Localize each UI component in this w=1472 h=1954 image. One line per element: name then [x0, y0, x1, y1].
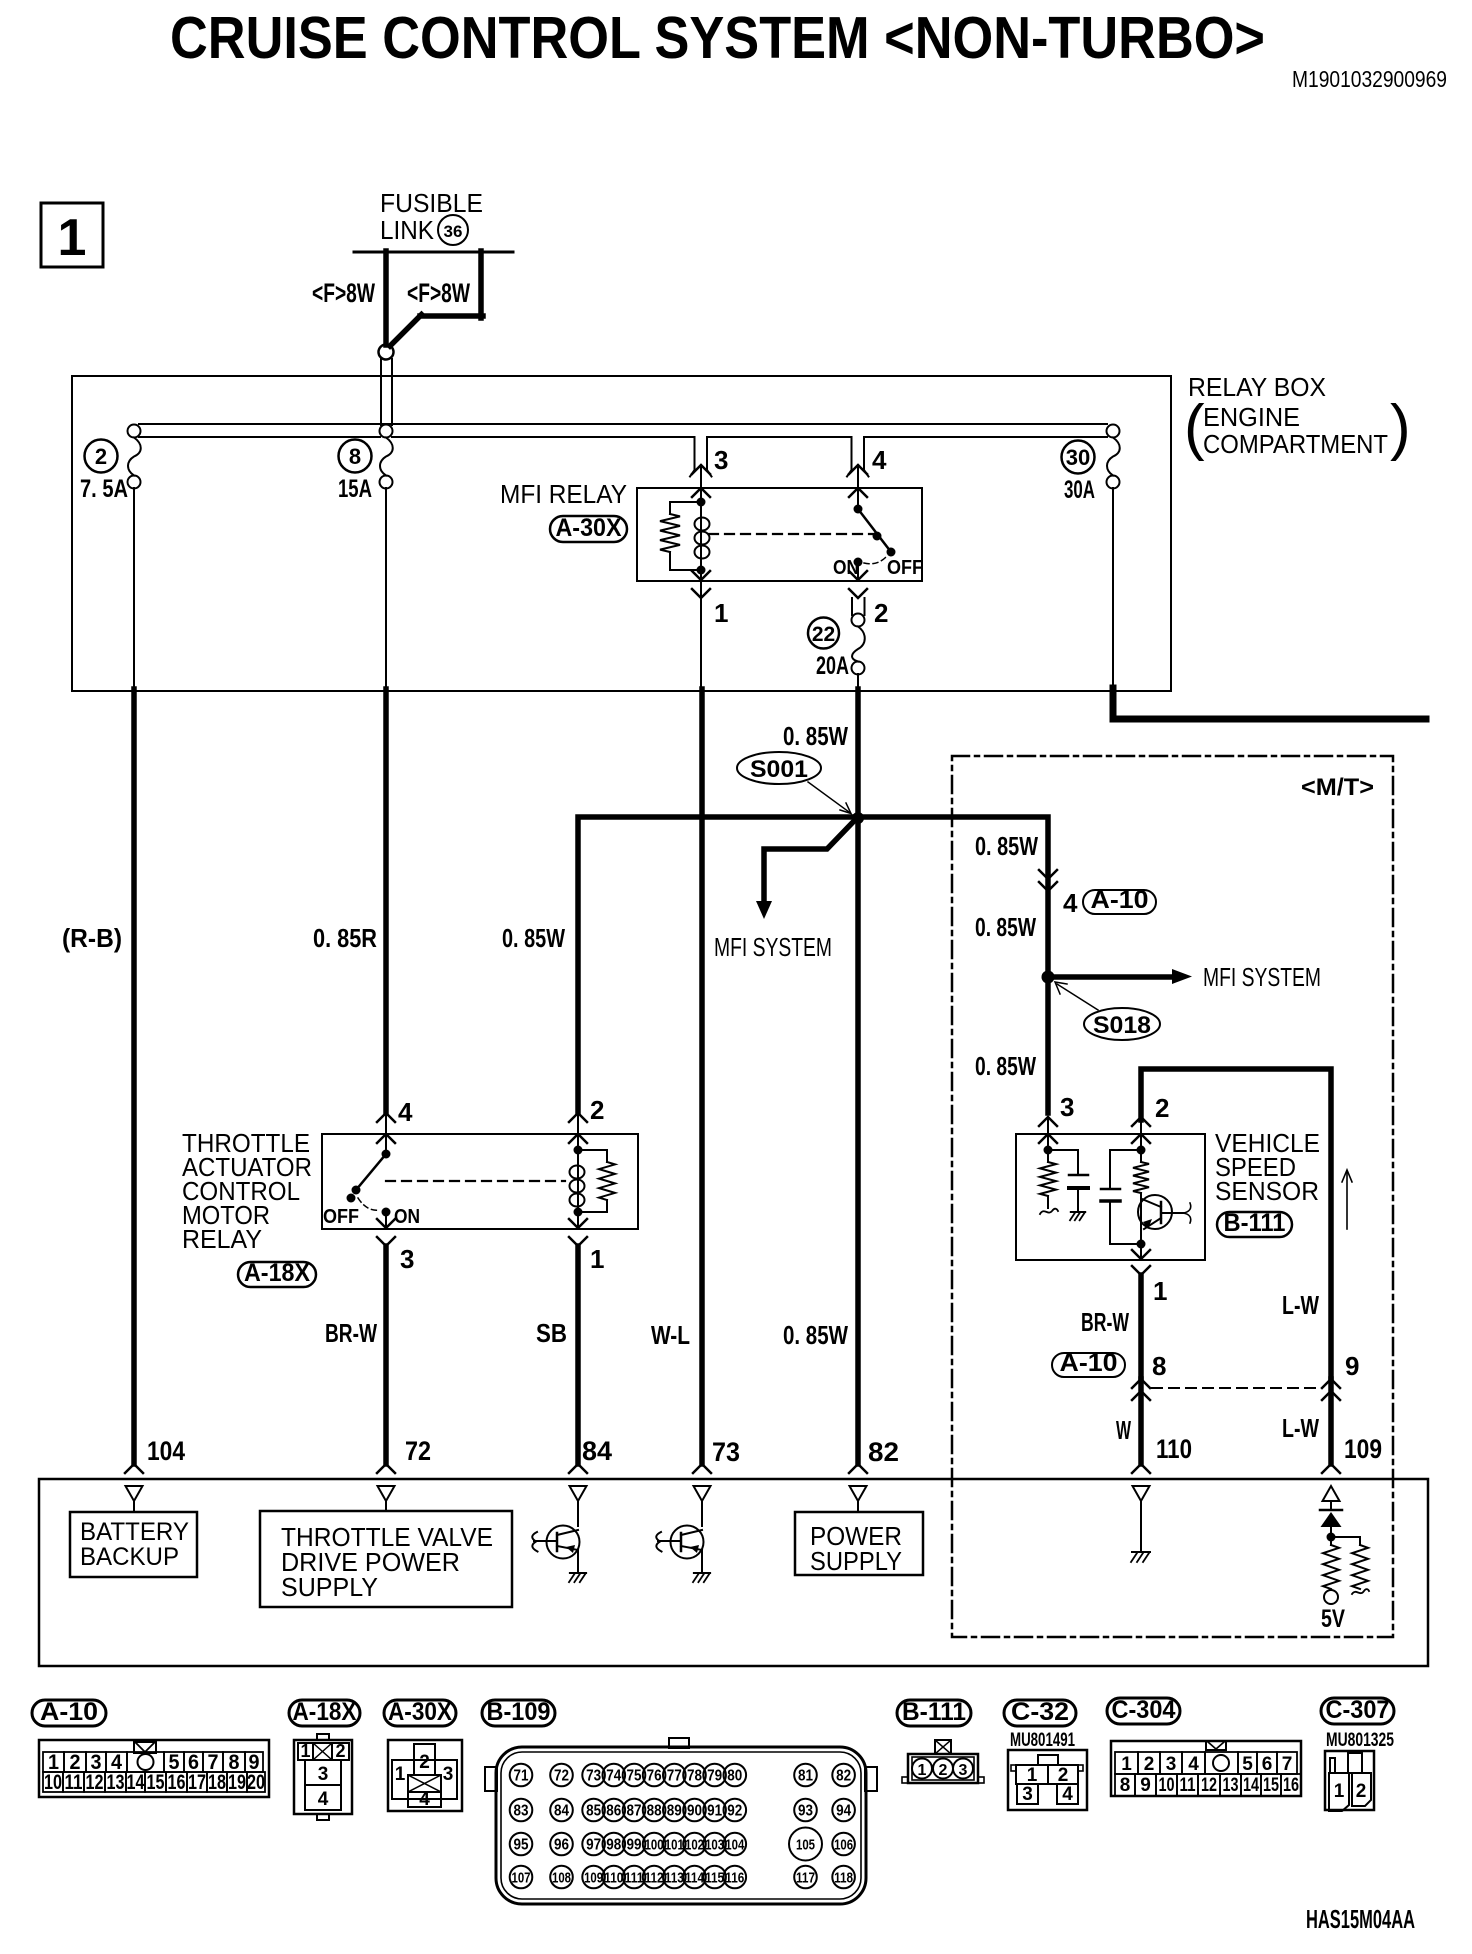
svg-text:15A: 15A	[338, 475, 372, 503]
svg-text:98: 98	[606, 1837, 621, 1854]
fusible link wires	[354, 251, 513, 254]
svg-text:COMPARTMENT: COMPARTMENT	[1203, 429, 1388, 459]
throttle actuator control motor relay A-18X box	[322, 1134, 638, 1229]
svg-text:96: 96	[554, 1837, 569, 1854]
wire fuse30 down	[1112, 488, 1114, 691]
VSS pin 3	[1039, 1117, 1057, 1126]
svg-text:RELAY BOX: RELAY BOX	[1188, 372, 1326, 402]
svg-text:104: 104	[725, 1837, 744, 1854]
A-18X linkage dashed	[386, 1180, 565, 1182]
connector B-111 pinout	[935, 1740, 951, 1754]
svg-text:12: 12	[1201, 1775, 1217, 1796]
svg-text:C-307: C-307	[1326, 1696, 1390, 1724]
svg-text:78: 78	[687, 1768, 702, 1785]
svg-text:4: 4	[419, 1789, 430, 1810]
svg-text:SUPPLY: SUPPLY	[810, 1546, 902, 1576]
svg-text:B-111: B-111	[1224, 1209, 1286, 1237]
page marker 1	[41, 203, 103, 267]
svg-text:L-W: L-W	[1282, 1413, 1319, 1443]
svg-text:2: 2	[419, 1752, 430, 1773]
svg-text:86: 86	[606, 1803, 621, 1820]
svg-text:3: 3	[1060, 1092, 1074, 1122]
double-line wire to bus	[380, 359, 382, 425]
svg-text:17: 17	[188, 1771, 206, 1794]
connector A-10 pin 4 (in M/T)	[1039, 870, 1057, 879]
svg-text:C-304: C-304	[1112, 1696, 1176, 1724]
svg-text:117: 117	[796, 1870, 815, 1887]
svg-text:11: 11	[65, 1771, 83, 1794]
svg-text:5: 5	[1242, 1754, 1253, 1775]
svg-text:MU801325: MU801325	[1326, 1730, 1394, 1751]
svg-text:1: 1	[1121, 1754, 1132, 1775]
connector A-10 pinout	[39, 1740, 269, 1797]
svg-text:A-10: A-10	[1060, 1349, 1118, 1377]
svg-text:85: 85	[586, 1803, 601, 1820]
svg-text:87: 87	[627, 1803, 642, 1820]
VSS pickup tail	[1040, 1209, 1058, 1214]
MFI relay contact linkage (dashed)	[709, 533, 874, 535]
A-18X pin 1	[577, 1212, 579, 1229]
svg-text:BATTERY: BATTERY	[80, 1518, 189, 1546]
svg-text:71: 71	[514, 1768, 529, 1785]
svg-text:<M/T>: <M/T>	[1301, 774, 1374, 801]
ECU ground at 110	[1140, 1501, 1142, 1551]
svg-text:16: 16	[1283, 1775, 1299, 1796]
svg-text:B-109: B-109	[487, 1698, 551, 1726]
svg-text:1: 1	[918, 1762, 927, 1779]
wire L-W VSS pin2 over to ECU 109	[1141, 1069, 1331, 1379]
A-18X switch	[382, 1150, 391, 1159]
svg-text:13: 13	[107, 1771, 125, 1794]
A-18X pin 3	[385, 1212, 387, 1229]
svg-text:3: 3	[318, 1764, 329, 1785]
svg-text:MFI SYSTEM: MFI SYSTEM	[714, 932, 832, 962]
svg-text:(: (	[1184, 393, 1205, 462]
connector C-307 pinout	[1325, 1751, 1374, 1810]
svg-text:11: 11	[1180, 1775, 1196, 1796]
svg-text:0. 85W: 0. 85W	[975, 1051, 1036, 1081]
connector A-10 crossing (dashed)	[1152, 1387, 1322, 1389]
connector A-18X label	[289, 1700, 360, 1726]
svg-text:1: 1	[1027, 1765, 1038, 1786]
svg-text:81: 81	[798, 1768, 813, 1785]
svg-text:2: 2	[1058, 1765, 1069, 1786]
svg-text:75: 75	[627, 1768, 642, 1785]
svg-text:84: 84	[582, 1436, 612, 1466]
svg-text:A-18X: A-18X	[293, 1698, 357, 1726]
svg-text:72: 72	[405, 1436, 431, 1466]
ECU output triangle at 109	[1323, 1486, 1340, 1501]
svg-text:83: 83	[514, 1803, 529, 1820]
svg-text:1: 1	[1334, 1781, 1345, 1802]
svg-text:30A: 30A	[1064, 476, 1095, 504]
svg-text:M1901032900969: M1901032900969	[1292, 66, 1447, 92]
svg-text:MFI SYSTEM: MFI SYSTEM	[1203, 962, 1321, 992]
svg-text:93: 93	[798, 1803, 813, 1820]
svg-text:A-18X: A-18X	[244, 1259, 310, 1287]
junction S001	[852, 812, 864, 824]
bus bar	[139, 423, 1107, 425]
wire (R-B) fuse2 to ECU 104	[131, 689, 137, 1464]
svg-text:91: 91	[707, 1803, 722, 1820]
svg-text:1: 1	[58, 209, 87, 267]
svg-text:): )	[1390, 393, 1411, 462]
svg-text:HAS15M04AA: HAS15M04AA	[1306, 1904, 1415, 1934]
svg-text:BR-W: BR-W	[1081, 1307, 1129, 1337]
A-18X coil	[574, 1146, 583, 1155]
svg-text:4: 4	[1062, 1784, 1073, 1805]
svg-text:107: 107	[512, 1870, 531, 1887]
svg-text:1: 1	[1153, 1276, 1167, 1306]
svg-text:CRUISE CONTROL SYSTEM <NON-TUR: CRUISE CONTROL SYSTEM <NON-TURBO>	[170, 5, 1265, 71]
direction arrow (VSS signal)	[1346, 1172, 1348, 1229]
svg-text:74: 74	[606, 1768, 621, 1785]
svg-text:9: 9	[1140, 1775, 1151, 1796]
svg-text:20A: 20A	[816, 652, 849, 680]
VSS pin 2	[1132, 1117, 1150, 1126]
svg-text:4: 4	[872, 445, 887, 475]
svg-text:(R-B): (R-B)	[62, 923, 122, 953]
junction S018	[1042, 971, 1055, 984]
svg-text:<F>8W: <F>8W	[407, 278, 470, 308]
svg-text:0. 85W: 0. 85W	[502, 923, 565, 953]
svg-text:MU801491: MU801491	[1010, 1730, 1075, 1751]
svg-text:0. 85R: 0. 85R	[313, 923, 377, 953]
svg-text:4: 4	[318, 1789, 329, 1810]
svg-text:A-10: A-10	[40, 1698, 98, 1726]
svg-text:95: 95	[514, 1837, 529, 1854]
svg-text:10: 10	[1159, 1775, 1175, 1796]
svg-text:W: W	[1116, 1415, 1131, 1445]
svg-text:102: 102	[685, 1837, 704, 1854]
svg-text:73: 73	[712, 1437, 740, 1467]
battery backup	[133, 1501, 135, 1512]
svg-text:92: 92	[727, 1803, 742, 1820]
svg-text:99: 99	[627, 1837, 642, 1854]
svg-text:4: 4	[1063, 888, 1078, 918]
fusible link terminal	[379, 345, 394, 360]
svg-text:SENSOR: SENSOR	[1215, 1176, 1319, 1206]
VSS transistor	[1138, 1195, 1172, 1229]
fuse 30 (30A)	[1107, 425, 1120, 438]
svg-text:77: 77	[667, 1768, 682, 1785]
svg-text:7: 7	[1282, 1754, 1293, 1775]
svg-text:79: 79	[707, 1768, 722, 1785]
connector B-109 pinout	[496, 1747, 866, 1904]
svg-text:14: 14	[1243, 1775, 1259, 1796]
svg-text:110: 110	[604, 1870, 623, 1887]
vehicle speed sensor B-111 box	[1016, 1134, 1205, 1260]
wire 0.85W fuse22 to S001 to ECU 82	[855, 689, 861, 1464]
svg-text:82: 82	[868, 1437, 899, 1467]
connector C-304 pinout	[1111, 1741, 1301, 1796]
svg-text:5V: 5V	[1321, 1605, 1345, 1633]
svg-text:118: 118	[834, 1870, 853, 1887]
svg-text:<F>8W: <F>8W	[312, 278, 375, 308]
svg-text:SUPPLY: SUPPLY	[281, 1572, 378, 1602]
VSS internal C middle	[1137, 1146, 1146, 1155]
svg-text:15: 15	[1263, 1775, 1279, 1796]
svg-text:89: 89	[667, 1803, 682, 1820]
svg-text:3: 3	[1022, 1784, 1033, 1805]
wire fuse8 down	[385, 488, 387, 691]
ECU box	[39, 1479, 1428, 1666]
svg-text:113: 113	[665, 1870, 684, 1887]
fuse 2 (7.5A)	[128, 425, 141, 438]
VSS internal resistor	[1140, 1150, 1142, 1162]
svg-text:2: 2	[590, 1095, 604, 1125]
svg-text:ON: ON	[394, 1206, 420, 1228]
svg-text:MFI RELAY: MFI RELAY	[500, 479, 627, 509]
connector B-109 label	[482, 1700, 555, 1726]
ECU diode + resistors at 109 (5V)	[1330, 1501, 1332, 1510]
svg-text:2: 2	[939, 1762, 948, 1779]
wire MFI relay pin1 to ECU 73, W-L	[699, 689, 705, 1464]
arrow to MFI SYSTEM (left)	[764, 820, 855, 903]
MFI relay pin 4	[851, 437, 853, 470]
connector B-111 label	[897, 1700, 971, 1726]
A-18X pin 4	[377, 1113, 395, 1122]
MFI relay A-30X box	[637, 488, 922, 581]
svg-text:RELAY: RELAY	[182, 1224, 262, 1254]
svg-text:111: 111	[625, 1870, 644, 1887]
throttle valve drive power supply	[385, 1501, 387, 1511]
arrow to MFI SYSTEM (right)	[1048, 974, 1174, 980]
svg-text:116: 116	[725, 1870, 744, 1887]
svg-text:22: 22	[812, 623, 835, 646]
MFI relay coil	[697, 498, 706, 507]
svg-text:0. 85W: 0. 85W	[783, 721, 848, 751]
svg-text:2: 2	[874, 598, 888, 628]
svg-text:72: 72	[554, 1768, 569, 1785]
wire 0.85W S001 into M/T	[856, 817, 1048, 1113]
svg-text:1: 1	[395, 1764, 406, 1785]
ECU transistor at 84	[577, 1501, 579, 1526]
svg-text:2: 2	[1356, 1781, 1367, 1802]
ground (VSS filter)	[1071, 1211, 1085, 1213]
svg-text:S001: S001	[750, 756, 808, 783]
svg-text:94: 94	[836, 1803, 851, 1820]
svg-text:FUSIBLE: FUSIBLE	[380, 188, 483, 218]
svg-text:ENGINE: ENGINE	[1203, 402, 1300, 432]
svg-text:10: 10	[44, 1771, 62, 1794]
svg-text:1: 1	[590, 1244, 604, 1274]
svg-text:104: 104	[147, 1436, 185, 1466]
svg-text:8: 8	[1120, 1775, 1131, 1796]
svg-text:106: 106	[834, 1837, 853, 1854]
wire BR-W VSS pin1 to A-10 pin 8, W to ECU 110	[1138, 1275, 1144, 1379]
svg-text:3: 3	[1166, 1754, 1177, 1775]
svg-text:100: 100	[645, 1837, 664, 1854]
svg-text:A-10: A-10	[1091, 886, 1149, 914]
svg-text:7. 5A: 7. 5A	[80, 475, 128, 503]
svg-text:110: 110	[1156, 1434, 1192, 1464]
MFI relay pin 2	[857, 562, 859, 581]
svg-text:6: 6	[1262, 1754, 1273, 1775]
VSS internal R+C left	[1044, 1146, 1053, 1155]
svg-text:14: 14	[127, 1771, 145, 1794]
svg-text:114: 114	[685, 1870, 705, 1887]
fuse 22 (20A)	[851, 598, 853, 615]
svg-text:8: 8	[1152, 1351, 1166, 1381]
svg-text:8: 8	[349, 444, 361, 469]
M/T dash-dot box	[952, 756, 1393, 1637]
MFI relay pin 3	[694, 437, 696, 470]
wire 0.85W S001 branch to A-18X pin2	[578, 817, 858, 1113]
svg-text:W-L: W-L	[651, 1320, 690, 1350]
wire 0.85R fuse8 to relay A-18X pin 4	[383, 689, 389, 1113]
svg-text:101: 101	[665, 1837, 684, 1854]
svg-text:2: 2	[95, 444, 107, 469]
connector C-32 label	[1004, 1700, 1076, 1726]
svg-text:115: 115	[705, 1870, 724, 1887]
connector A-30X pinout	[388, 1740, 462, 1811]
svg-text:4: 4	[398, 1097, 413, 1127]
svg-text:109: 109	[1344, 1434, 1382, 1464]
ECU input triangles	[126, 1486, 143, 1501]
svg-text:1: 1	[714, 598, 728, 628]
svg-text:12: 12	[86, 1771, 104, 1794]
relay box	[72, 376, 1171, 691]
svg-text:30: 30	[1066, 445, 1090, 470]
svg-text:A-30X: A-30X	[556, 514, 622, 542]
svg-text:S018: S018	[1093, 1012, 1151, 1039]
svg-text:B-111: B-111	[902, 1698, 966, 1726]
MFI relay pin 1	[700, 570, 702, 581]
connector A-18X pinout	[294, 1740, 352, 1814]
svg-text:BACKUP: BACKUP	[80, 1543, 179, 1571]
svg-text:9: 9	[1345, 1351, 1359, 1381]
connector A-30X label	[384, 1700, 456, 1726]
ECU transistor at 73	[701, 1501, 703, 1526]
svg-text:88: 88	[647, 1803, 662, 1820]
svg-text:20: 20	[247, 1771, 265, 1794]
svg-text:OFF: OFF	[323, 1206, 359, 1228]
svg-text:OFF: OFF	[887, 557, 923, 579]
power supply	[857, 1501, 859, 1512]
svg-text:18: 18	[208, 1771, 226, 1794]
A-18X pin 2	[569, 1113, 587, 1122]
svg-text:0. 85W: 0. 85W	[975, 831, 1038, 861]
svg-text:84: 84	[554, 1803, 569, 1820]
svg-text:4: 4	[1188, 1754, 1199, 1775]
svg-text:3: 3	[714, 445, 728, 475]
svg-text:1: 1	[300, 1741, 310, 1761]
svg-text:L-W: L-W	[1282, 1290, 1319, 1320]
svg-text:108: 108	[552, 1870, 571, 1887]
svg-text:2: 2	[1155, 1093, 1169, 1123]
svg-text:82: 82	[836, 1768, 851, 1785]
connector C-307 label	[1321, 1698, 1394, 1724]
MFI relay switch	[854, 505, 863, 514]
svg-text:73: 73	[586, 1768, 601, 1785]
svg-text:76: 76	[647, 1768, 662, 1785]
svg-text:36: 36	[444, 222, 463, 241]
svg-text:80: 80	[727, 1768, 742, 1785]
svg-text:13: 13	[1223, 1775, 1239, 1796]
svg-text:15: 15	[147, 1771, 165, 1794]
svg-text:BR-W: BR-W	[325, 1318, 377, 1348]
svg-text:2: 2	[335, 1741, 345, 1761]
svg-text:LINK: LINK	[380, 215, 435, 245]
wire fuse2 down	[133, 488, 135, 691]
svg-text:SB: SB	[536, 1318, 567, 1348]
svg-text:19: 19	[228, 1771, 246, 1794]
svg-text:3: 3	[959, 1762, 968, 1779]
svg-text:0. 85W: 0. 85W	[783, 1320, 848, 1350]
svg-text:A-30X: A-30X	[388, 1698, 452, 1726]
svg-text:C-32: C-32	[1011, 1698, 1069, 1726]
svg-text:112: 112	[645, 1870, 664, 1887]
connector C-304 label	[1107, 1698, 1180, 1724]
svg-text:90: 90	[687, 1803, 702, 1820]
connector A-10 label	[32, 1700, 106, 1726]
svg-text:16: 16	[168, 1771, 186, 1794]
svg-text:97: 97	[586, 1837, 601, 1854]
svg-text:103: 103	[705, 1837, 724, 1854]
VSS pin 1	[1137, 1240, 1146, 1249]
svg-text:3: 3	[443, 1764, 454, 1785]
svg-text:2: 2	[1144, 1754, 1155, 1775]
wire fuse30 to page edge	[1113, 688, 1426, 719]
svg-text:0. 85W: 0. 85W	[975, 912, 1036, 942]
svg-text:105: 105	[796, 1837, 815, 1854]
svg-text:3: 3	[400, 1244, 414, 1274]
svg-text:109: 109	[584, 1870, 603, 1887]
fuse 8 (15A)	[380, 425, 393, 438]
connector C-32 pinout	[1008, 1750, 1087, 1810]
